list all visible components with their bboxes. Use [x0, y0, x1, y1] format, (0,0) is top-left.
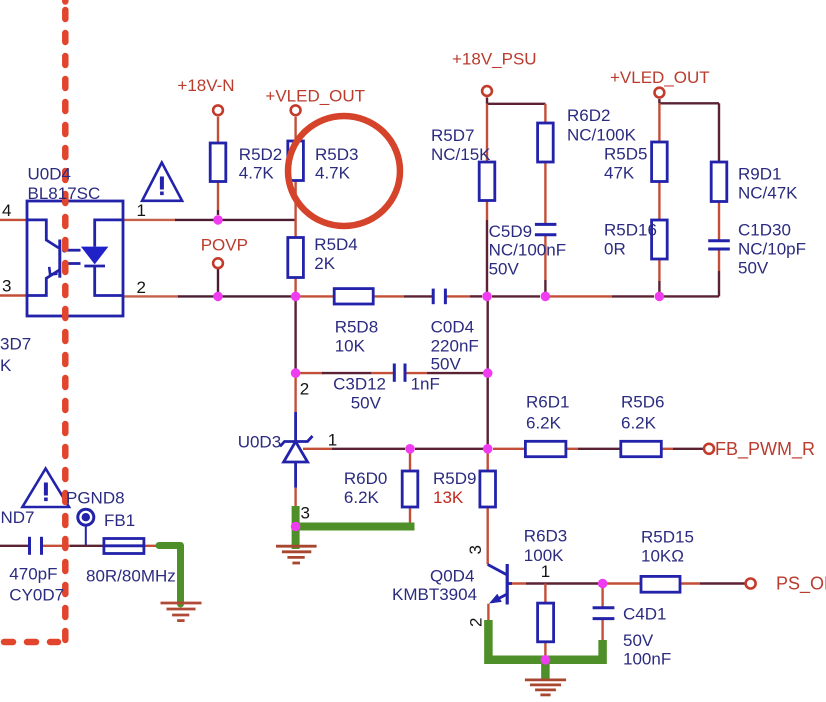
svg-text:1: 1 [328, 430, 337, 449]
opto LED bracket bottom [95, 266, 123, 296]
wire +18V_PSU stub [486, 98, 488, 104]
wire CY0D7 left [0, 545, 30, 547]
svg-text:POVP: POVP [201, 236, 248, 255]
wire green under R6D0 [296, 523, 415, 531]
wire vertical x=295.6 netB to netC [294, 296, 296, 373]
red annotation circle around R5D3 [288, 116, 400, 226]
wire opto pin3 [0, 294, 27, 296]
wire R6D0 top lead [409, 449, 411, 471]
wire CY0D7 to FB1 [42, 545, 71, 547]
resistor R5D15 [641, 576, 680, 592]
svg-text:1nF: 1nF [411, 375, 440, 394]
wire R5D5 top lead [658, 103, 660, 142]
svg-text:2: 2 [137, 278, 146, 297]
wire R6D3 top lead [544, 584, 546, 604]
resistor R6D2 [538, 123, 554, 162]
node junction netC left [291, 368, 301, 378]
wire R5D7 top lead [486, 104, 488, 162]
svg-text:R5D3: R5D3 [315, 145, 358, 164]
wire C4D1 bottom lead [601, 619, 603, 642]
wire vertical x=487.7 netC to netD [487, 373, 489, 449]
svg-text:3: 3 [466, 545, 485, 554]
svg-text:1: 1 [137, 201, 146, 220]
svg-text:+VLED_OUT: +VLED_OUT [265, 87, 365, 106]
svg-text:Q0D4: Q0D4 [430, 567, 474, 586]
power port +VLED_OUT right [655, 88, 665, 98]
svg-text:220nF: 220nF [431, 336, 479, 355]
wire R9D1 rail upper [718, 103, 720, 162]
svg-text:4.7K: 4.7K [239, 163, 275, 182]
svg-text:10K: 10K [335, 336, 366, 355]
capacitor C3D12 plates [393, 364, 396, 382]
svg-text:R5D8: R5D8 [335, 317, 378, 336]
power port +18V_PSU [482, 86, 492, 96]
svg-text:U0D4: U0D4 [28, 165, 71, 184]
wire POVP lead [217, 269, 219, 292]
wire +18V-N lead [217, 117, 219, 143]
opto transistor bracket [27, 220, 59, 248]
svg-text:R5D15: R5D15 [641, 527, 694, 546]
svg-text:K: K [0, 356, 12, 375]
svg-text:4.7K: 4.7K [315, 163, 351, 182]
red dashed isolation line vertical [62, 10, 69, 645]
svg-text:3: 3 [2, 277, 11, 296]
opto LED bracket top [95, 220, 123, 247]
node junction netB-C5D9 [541, 292, 551, 302]
capacitor C0D4 plates [432, 289, 435, 305]
svg-text:2: 2 [300, 379, 309, 398]
wire green U0D3 pin3 to ground [292, 506, 300, 549]
wire Q emitter lead [487, 604, 489, 622]
text labels blue [0, 106, 806, 669]
wire green FB1 to ground [159, 546, 181, 605]
svg-text:50V: 50V [623, 631, 654, 650]
svg-text:C4D1: C4D1 [623, 605, 666, 624]
svg-text:50V: 50V [738, 258, 769, 277]
svg-text:2: 2 [467, 618, 486, 627]
wire R5D4 top lead [294, 220, 296, 238]
ground symbol below Q0D4 [525, 680, 566, 695]
svg-text:47K: 47K [604, 163, 635, 182]
svg-text:PGND8: PGND8 [66, 489, 125, 508]
node junction netE-C4D1 [598, 579, 608, 589]
ground symbol below U0D3 [276, 546, 317, 563]
opto-coupler U0D4 box [27, 201, 123, 316]
wire corner to R6D2 branch [487, 103, 545, 105]
svg-text:KMBT3904: KMBT3904 [392, 585, 477, 604]
shunt regulator U0D3 cathode bar [280, 436, 313, 447]
svg-text:6.2K: 6.2K [344, 488, 380, 507]
svg-text:ND7: ND7 [1, 508, 35, 527]
resistor R5D16 [652, 220, 668, 259]
wire vertical x=487.7 netB to netC [487, 296, 489, 373]
wire R5D9 bottom lead to Q collector [487, 507, 489, 565]
power port +VLED_OUT left [291, 105, 301, 115]
svg-text:+18V-N: +18V-N [177, 76, 234, 95]
svg-text:R6D1: R6D1 [526, 392, 569, 411]
node junction U0D3 pin3 green [291, 522, 301, 532]
wire C4D1 top lead [601, 584, 603, 608]
resistor R5D5 [652, 142, 668, 182]
wire C5D9 to net B [544, 235, 546, 280]
svg-text:R5D4: R5D4 [314, 235, 357, 254]
warning triangle near PGND8 [22, 469, 69, 508]
svg-text:R6D3: R6D3 [524, 526, 567, 545]
capacitor C4D1 plates [593, 606, 615, 609]
opto light line 2 [66, 262, 81, 265]
wire R5D9 top lead [487, 449, 489, 471]
resistor R5D4 [288, 238, 304, 278]
wire R6D2 top lead [544, 104, 546, 123]
node junction netD-R5D9 [483, 444, 493, 454]
resistor R5D7 [479, 162, 495, 201]
node junction netB-R5D7 [482, 292, 492, 302]
svg-text:NC/10pF: NC/10pF [738, 239, 806, 258]
wire +VLED_OUT right stub [658, 99, 660, 103]
transistor Q0D4 base lead [507, 582, 512, 585]
wire R9D1 to C1D30 [718, 202, 720, 241]
svg-text:C5D9: C5D9 [489, 222, 532, 241]
resistor R9D1 [711, 162, 727, 202]
opto light line 1 [66, 249, 81, 252]
transistor Q0D4 emitter [492, 594, 507, 602]
wire net B main horizontal [123, 295, 179, 297]
node junction netB-POVP [213, 292, 223, 302]
wire U0D3 pin3 lead [294, 488, 296, 508]
svg-text:NC/47K: NC/47K [738, 183, 798, 202]
svg-text:NC/100nF: NC/100nF [489, 240, 566, 259]
wire green Q emitter to ground rail [488, 620, 602, 660]
resistor R6D3 [538, 603, 554, 642]
node junction netB-R5D16 [655, 292, 665, 302]
svg-text:+VLED_OUT: +VLED_OUT [610, 68, 710, 87]
svg-text:50V: 50V [431, 355, 462, 374]
svg-text:R6D0: R6D0 [344, 469, 387, 488]
power port POVP [213, 258, 223, 268]
opto LED cathode bar [84, 265, 105, 268]
svg-text:C0D4: C0D4 [431, 317, 474, 336]
svg-text:6.2K: 6.2K [621, 413, 657, 432]
svg-text:R5D5: R5D5 [604, 144, 647, 163]
transistor Q0D4 emitter arrow [489, 594, 502, 604]
svg-text:U0D3: U0D3 [238, 433, 281, 452]
power port +18V-N [213, 105, 223, 115]
svg-text:NC/15K: NC/15K [431, 145, 491, 164]
opto transistor base bar [58, 240, 61, 278]
svg-text:3D7: 3D7 [0, 335, 31, 354]
port PS_ON [746, 579, 756, 589]
svg-text:50V: 50V [489, 259, 520, 278]
wire green ground stub under R6D3 [541, 660, 550, 679]
port FB_PWM_R [704, 444, 714, 454]
wire R5D2 to junction [217, 182, 219, 211]
svg-text:R5D7: R5D7 [431, 126, 474, 145]
resistor R6D1 [525, 441, 566, 456]
svg-text:R6D2: R6D2 [567, 106, 610, 125]
wire corner to R9D1 branch [659, 102, 719, 104]
opto transistor emitter arrow [49, 267, 57, 275]
resistor R6D0 [402, 471, 418, 507]
svg-text:R9D1: R9D1 [738, 164, 781, 183]
transistor Q0D4 collector [488, 565, 508, 576]
svg-text:C3D12: C3D12 [333, 375, 386, 394]
transistor Q0D4 bar [506, 564, 509, 605]
node junction ground rail R6D3 [541, 655, 551, 665]
node junction netD-R6D0 [405, 444, 415, 454]
resistor R5D9 [480, 471, 496, 507]
shunt regulator U0D3 lead top [294, 412, 297, 442]
svg-text:10KΩ: 10KΩ [641, 546, 684, 565]
wire net C horizontal [300, 372, 323, 374]
wire R6D0 bottom lead [409, 507, 411, 527]
shunt regulator U0D3 lead bottom [294, 462, 297, 488]
wire net D U0D3 pin1 to FB_PWM_R [303, 448, 332, 450]
capacitor CY0D7 plates [28, 537, 31, 555]
wire net E base to PS_ON [509, 582, 526, 584]
components layer [27, 123, 730, 642]
wire R6D2 to C5D9 [544, 162, 546, 224]
capacitor C1D30 plates [708, 239, 730, 242]
wire +VLED_OUT lead to R5D3 [294, 117, 296, 141]
svg-text:50V: 50V [351, 394, 382, 413]
svg-text:R5D9: R5D9 [433, 469, 476, 488]
capacitor C5D9 plates [535, 223, 557, 226]
svg-text:1: 1 [541, 562, 550, 581]
svg-text:BL817SC: BL817SC [28, 184, 101, 203]
svg-text:2K: 2K [314, 254, 335, 273]
svg-text:6.2K: 6.2K [526, 413, 562, 432]
svg-text:4: 4 [2, 201, 11, 220]
wire U0D3 pin2 lead [294, 373, 296, 412]
opto transistor emitter [27, 270, 60, 296]
opto light dots [62, 248, 67, 253]
svg-text:3: 3 [301, 504, 310, 523]
svg-text:R5D6: R5D6 [621, 392, 664, 411]
ground symbol right of FB1 [161, 603, 202, 621]
net labels red [177, 49, 826, 594]
red dashed isolation line horizontal [4, 639, 58, 646]
svg-text:13K: 13K [433, 488, 464, 507]
green thick wires [159, 506, 603, 679]
node junction netA-R5D2 [213, 215, 223, 225]
wire R5D7 to net B [486, 201, 488, 221]
svg-text:80R/80MHz: 80R/80MHz [86, 567, 176, 586]
resistor R5D8 [334, 289, 373, 304]
wire C1D30 to net B corner [718, 249, 720, 271]
node junction netB-R5D4 [291, 292, 301, 302]
svg-text:C1D30: C1D30 [738, 220, 791, 239]
svg-text:470pF: 470pF [9, 564, 57, 583]
wire opto pin4 [0, 219, 27, 221]
svg-text:100nF: 100nF [623, 650, 671, 669]
svg-text:+18V_PSU: +18V_PSU [452, 49, 537, 68]
wire R5D3 to net A [294, 181, 296, 220]
resistor R5D3 [288, 141, 304, 181]
wire net A opto pin1 to R5D4 column [123, 219, 176, 221]
svg-text:CY0D7: CY0D7 [9, 586, 64, 605]
svg-text:PS_ON: PS_ON [776, 573, 826, 594]
wire R5D4 bottom lead [294, 278, 296, 297]
svg-text:R5D2: R5D2 [239, 145, 282, 164]
wire R6D3 bottom lead [544, 642, 546, 660]
svg-text:FB_PWM_R: FB_PWM_R [715, 439, 815, 460]
power port PGND8 symbol [78, 509, 94, 525]
svg-text:0R: 0R [604, 239, 626, 258]
svg-text:NC/100K: NC/100K [567, 125, 637, 144]
svg-text:FB1: FB1 [104, 511, 135, 530]
wire R5D5 to R5D16 [658, 182, 660, 221]
resistor R5D2 [210, 143, 226, 182]
wire FB1 to green [144, 545, 162, 547]
shunt regulator U0D3 triangle [284, 442, 308, 463]
warning triangle near opto [142, 163, 182, 201]
svg-text:R5D16: R5D16 [604, 220, 657, 239]
node junction netC right [483, 368, 493, 378]
resistor R5D6 [621, 441, 662, 456]
wire R5D16 to net B [658, 259, 660, 281]
ferrite bead FB1 [104, 539, 144, 554]
opto LED filled triangle [81, 247, 109, 265]
wire segments layer [0, 98, 745, 660]
